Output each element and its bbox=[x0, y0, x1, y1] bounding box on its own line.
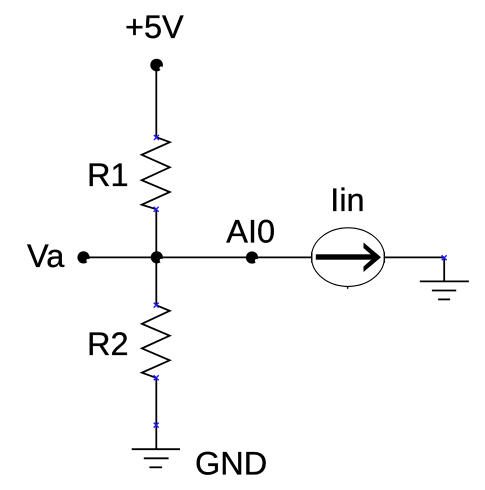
svg-text:GND: GND bbox=[195, 446, 267, 482]
svg-text:R1: R1 bbox=[87, 157, 129, 193]
svg-text:Va: Va bbox=[27, 238, 65, 274]
svg-text:R2: R2 bbox=[87, 326, 129, 362]
svg-text:AI0: AI0 bbox=[226, 214, 275, 250]
svg-text:+5V: +5V bbox=[125, 9, 184, 45]
svg-text:Iin: Iin bbox=[330, 182, 364, 218]
